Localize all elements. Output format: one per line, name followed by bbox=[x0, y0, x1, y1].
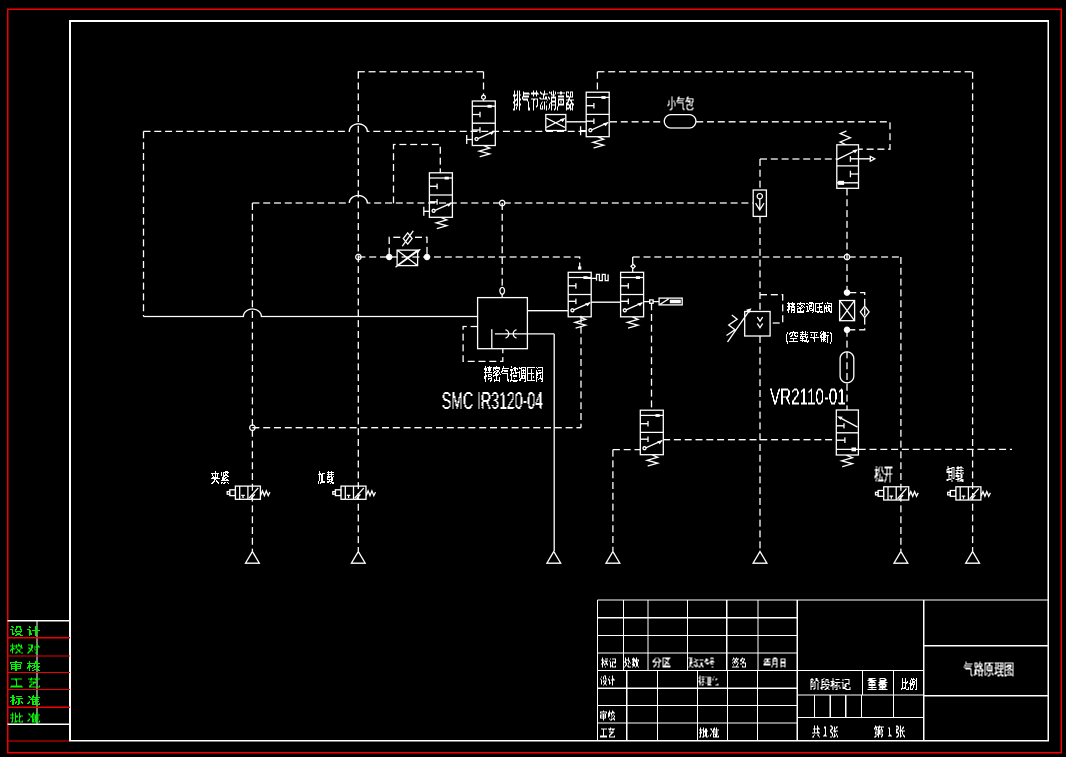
valve A pilot circle bbox=[482, 95, 486, 99]
label 排气节流消声器 bbox=[513, 91, 574, 111]
title block lower grid columns bbox=[627, 671, 758, 741]
wire VR regulator bypass bbox=[760, 295, 783, 323]
label 加载 bbox=[318, 471, 334, 484]
valve F exhaust silencer capsule bbox=[659, 298, 682, 305]
valve C (top right pilot valve) bbox=[837, 131, 875, 188]
valve G (lower mid 3/2) bbox=[640, 410, 663, 466]
wire valve G left outlet bbox=[613, 450, 641, 551]
wire regulator outlet y310 bbox=[527, 310, 568, 312]
exhaust triangle T7 bbox=[966, 552, 980, 564]
label 阶段标记 bbox=[811, 678, 851, 690]
label 精密气控调压阀 bbox=[484, 366, 543, 382]
title block upper grid rows bbox=[597, 618, 923, 671]
shutoff valve with X bbox=[840, 290, 870, 332]
wire far right vertical x972 bbox=[972, 72, 974, 551]
label 比例 bbox=[901, 678, 917, 690]
title block main dividers bbox=[797, 600, 924, 741]
left signature strip red row lines bbox=[8, 638, 71, 708]
label 处数 bbox=[624, 658, 639, 668]
wire rail y203 with hop bbox=[252, 196, 753, 204]
manual valve 夹紧 bbox=[227, 486, 270, 499]
wire valve F to node and muffler bbox=[644, 301, 659, 303]
hop arc on rail y131 bbox=[349, 124, 367, 131]
exhaust throttle silencer box bbox=[546, 115, 566, 131]
wire tank line dashes bbox=[610, 122, 890, 149]
wire regulator drain to triangle bbox=[495, 334, 554, 551]
red bottom-left segment bbox=[8, 740, 71, 742]
wire shutoff bypass loop x864 bbox=[849, 293, 864, 330]
wire supply line y316 with hop bbox=[144, 309, 478, 317]
manual valve 松开 bbox=[876, 487, 919, 500]
wire check D to valve C bbox=[760, 159, 837, 190]
exhaust triangle T4 bbox=[606, 552, 620, 564]
small air tank 小气包 bbox=[664, 115, 696, 128]
label 松开 bbox=[875, 467, 893, 483]
wire valve B pilot drop bbox=[596, 72, 598, 92]
wire valve G to valve H y439 bbox=[663, 439, 834, 441]
valve F (mid 3/2) bbox=[621, 272, 644, 328]
wire top pilot rail right bbox=[597, 71, 972, 73]
exhaust triangle T1 bbox=[246, 552, 260, 564]
label 标记 bbox=[601, 658, 616, 668]
label 设计 bbox=[600, 676, 615, 686]
title block lower grid rows bbox=[597, 688, 797, 723]
small reservoir capsule VR2110 bbox=[840, 352, 854, 383]
label 夹紧 bbox=[211, 471, 229, 484]
node square after valve F bbox=[650, 300, 653, 303]
manual valve 加载 bbox=[333, 486, 376, 499]
node on rail y257 left bbox=[356, 254, 361, 259]
title block upper grid columns bbox=[623, 600, 758, 671]
label VR2110-01 bbox=[770, 389, 845, 405]
valve A2 exhaust port tee bbox=[424, 207, 430, 216]
hop arc on rail y203 bbox=[349, 196, 367, 204]
valve E pilot stub square bbox=[578, 266, 581, 269]
label 卸载 bbox=[947, 466, 964, 482]
exhaust triangle T5 bbox=[753, 552, 767, 564]
wire left vertical x143 bbox=[143, 131, 145, 316]
label 共1张 bbox=[812, 726, 838, 738]
wire valve C drop x847 bbox=[846, 189, 848, 410]
wire rail y257 right + valve F pilot bbox=[633, 257, 901, 272]
exhaust triangle T3 bbox=[547, 552, 561, 564]
wire valve G pilot x651 bbox=[651, 303, 653, 410]
exhaust triangle T6 bbox=[894, 552, 908, 564]
precision air-pilot regulator SMC IR3120-04 bbox=[478, 287, 528, 348]
valve B exhaust port tee bbox=[581, 126, 587, 135]
wire valve E outlet drop x581 bbox=[580, 316, 582, 428]
wire main left vertical x358 bbox=[357, 72, 359, 551]
precision regulator VR (空载平衡) bbox=[727, 308, 771, 342]
wire bottom right rail y449 bbox=[859, 448, 1012, 450]
valve A exhaust port tee bbox=[467, 135, 473, 144]
wire release vertical x900 bbox=[900, 257, 902, 551]
node on rail y257 right bbox=[844, 254, 849, 259]
label 空载平衡 bbox=[786, 331, 832, 344]
drawing title 气路原理图 bbox=[964, 662, 1014, 677]
valve A2 (pilot valve on rail y203) bbox=[429, 173, 452, 229]
label SMC IR3120-04 bbox=[443, 392, 543, 409]
wire check D down vertical x760 bbox=[759, 216, 761, 551]
wire rail y427 bbox=[252, 427, 581, 429]
valve E exhaust muffler zigzag bbox=[588, 274, 609, 280]
wire regulator pilot drop x502 bbox=[501, 203, 503, 298]
label 审核 bbox=[600, 711, 615, 721]
wire valve E to valve F y302 bbox=[591, 301, 620, 303]
title block middle-right cells bbox=[797, 671, 924, 718]
label 第1张 bbox=[874, 726, 905, 738]
wire throttle bypass loop near x358 bbox=[389, 237, 427, 255]
exhaust triangle T2 bbox=[351, 552, 365, 564]
node on rail y203 bbox=[500, 200, 505, 205]
flow control with check bypass (near x358) bbox=[387, 231, 430, 268]
label 批准 bbox=[699, 728, 719, 738]
label 精密调压阀 bbox=[787, 302, 832, 313]
wire valve A pilot drop bbox=[483, 72, 485, 101]
manual valve 卸载 bbox=[948, 487, 991, 500]
wire clamp vertical x252 bbox=[251, 203, 253, 551]
title block small revision cells bbox=[815, 695, 894, 718]
left signature strip white lines bbox=[8, 621, 71, 725]
label 签名 bbox=[732, 658, 746, 668]
valve E (mid 3/2) bbox=[568, 272, 591, 328]
green signature labels bbox=[10, 626, 40, 636]
node on rail y427 bbox=[250, 425, 255, 430]
label 标准化 bbox=[699, 676, 719, 686]
wire valve A2 pilot loop bbox=[394, 145, 441, 204]
wire regulator sub rect dashed bbox=[463, 327, 503, 362]
valve H (VR2110-01 valve) bbox=[836, 410, 858, 467]
check valve D bbox=[753, 190, 766, 216]
wire rail y131 with hop bbox=[144, 124, 587, 131]
wire rail y257 left + valve E pilot bbox=[358, 257, 579, 272]
label 工艺 bbox=[600, 728, 615, 738]
title block right cells bbox=[924, 646, 1049, 696]
wire top pilot rail left bbox=[358, 71, 484, 73]
title block outline bbox=[597, 600, 1048, 741]
label 重量 bbox=[868, 678, 888, 690]
valve F pilot stub diamond bbox=[631, 264, 635, 268]
wire silencer to valve B solid bbox=[567, 121, 587, 123]
valve A (pilot 3/2, below top rail) bbox=[472, 101, 495, 157]
label 小气包 bbox=[668, 96, 694, 110]
valve B (exhaust 3/2 by silencer) bbox=[586, 92, 609, 148]
label 分区 bbox=[653, 658, 671, 668]
label 更改文件号 bbox=[689, 658, 715, 668]
label 年月日 bbox=[764, 658, 786, 668]
